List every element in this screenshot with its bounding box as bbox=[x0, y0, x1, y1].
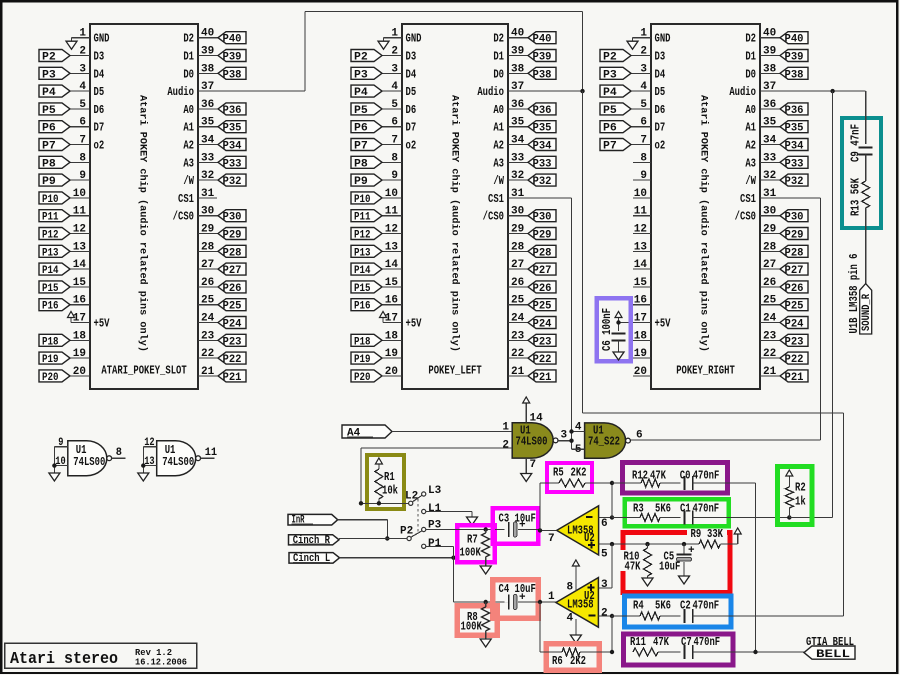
wire: audio-left long vertical bbox=[582, 91, 584, 413]
svg-text:P12: P12 bbox=[354, 230, 371, 242]
pin 29 tag P29 POKEY_LEFT bbox=[508, 224, 528, 236]
svg-text:38: 38 bbox=[511, 63, 525, 75]
svg-text:GND: GND bbox=[406, 32, 422, 46]
highlight box teal C9 R13 bbox=[842, 118, 881, 228]
svg-text:o2: o2 bbox=[94, 139, 105, 153]
svg-text:R7: R7 bbox=[467, 533, 478, 547]
pin 10 tag P10 ATARI_POKEY_SLOT bbox=[70, 188, 90, 200]
svg-text:21: 21 bbox=[511, 366, 525, 378]
resistor R6 2K2 bbox=[540, 648, 614, 668]
svg-text:R4: R4 bbox=[633, 599, 644, 613]
svg-text:7: 7 bbox=[640, 135, 647, 147]
highlight box salmon R8 bbox=[457, 606, 497, 636]
switch blade P2-P3 bbox=[411, 531, 422, 537]
pin 2 tag P2 POKEY_RIGHT bbox=[631, 46, 665, 64]
svg-text:P19: P19 bbox=[42, 354, 59, 366]
svg-text:C7: C7 bbox=[681, 635, 692, 649]
svg-text:16: 16 bbox=[73, 295, 86, 307]
resistor R10 47K bbox=[624, 544, 652, 578]
port tag P25 right POKEY_RIGHT bbox=[780, 299, 808, 313]
svg-text:P14: P14 bbox=[354, 265, 371, 277]
capacitor C2 470nF bbox=[680, 599, 843, 624]
pin 8 power U2A bbox=[572, 560, 579, 591]
port tag P2 left ATARI_POKEY_SLOT bbox=[39, 50, 70, 64]
switch contact L3 bbox=[422, 485, 442, 497]
pin 23 tag P23 POKEY_LEFT bbox=[508, 330, 528, 342]
svg-text:A0: A0 bbox=[493, 103, 504, 117]
svg-text:26: 26 bbox=[511, 277, 524, 289]
svg-text:33: 33 bbox=[763, 152, 777, 164]
svg-text:15: 15 bbox=[634, 277, 648, 289]
svg-text:+5V: +5V bbox=[406, 317, 423, 331]
svg-text:SOUND_R: SOUND_R bbox=[861, 294, 873, 331]
svg-text:47K: 47K bbox=[653, 635, 670, 649]
wires inputs pins 12 13 bbox=[141, 437, 157, 473]
svg-text:P28: P28 bbox=[533, 247, 552, 259]
ground gate inputs bbox=[49, 473, 60, 481]
svg-text:34: 34 bbox=[201, 135, 215, 147]
pin 11 stub POKEY_RIGHT bbox=[633, 206, 651, 218]
port tag P25 right POKEY_LEFT bbox=[528, 299, 556, 313]
svg-text:D0: D0 bbox=[493, 67, 504, 81]
highlight box green R2 bbox=[777, 467, 812, 525]
pin 20 tag P20 POKEY_LEFT bbox=[382, 366, 402, 378]
wire: audio chip2 stub bbox=[508, 90, 583, 92]
svg-text:1: 1 bbox=[391, 28, 398, 40]
port tag P6 left POKEY_LEFT bbox=[351, 121, 382, 135]
pin 14 tag P14 POKEY_LEFT bbox=[382, 259, 402, 271]
svg-text:P27: P27 bbox=[223, 265, 242, 277]
pin 16 tag P16 POKEY_LEFT bbox=[382, 295, 402, 307]
pin 23 tag P23 POKEY_RIGHT bbox=[760, 330, 780, 342]
svg-text:P9: P9 bbox=[42, 176, 56, 188]
svg-text:D2: D2 bbox=[183, 32, 194, 46]
port tag P5 left POKEY_RIGHT bbox=[600, 103, 631, 117]
svg-text:11: 11 bbox=[385, 206, 399, 218]
port tag P24 right POKEY_RIGHT bbox=[780, 317, 808, 331]
svg-text:P6: P6 bbox=[603, 123, 617, 135]
svg-text:32: 32 bbox=[201, 170, 214, 182]
svg-text:28: 28 bbox=[201, 241, 215, 253]
port tag P27 right POKEY_LEFT bbox=[528, 263, 556, 277]
pin 18 stub POKEY_RIGHT bbox=[633, 330, 651, 342]
port tag P11 left POKEY_LEFT bbox=[351, 210, 382, 224]
white gap for R10 text bbox=[621, 550, 642, 571]
svg-text:R3: R3 bbox=[633, 502, 644, 516]
svg-text:16: 16 bbox=[385, 295, 398, 307]
svg-text:A1: A1 bbox=[745, 121, 756, 135]
pin 37 Audio number POKEY_LEFT bbox=[511, 81, 524, 93]
ground symbol pin1 POKEY_RIGHT bbox=[627, 38, 638, 50]
port tag P5 left ATARI_POKEY_SLOT bbox=[39, 103, 70, 117]
wire: C9 top bbox=[865, 91, 867, 144]
svg-text:A3: A3 bbox=[745, 156, 756, 170]
svg-text:D7: D7 bbox=[655, 121, 666, 135]
svg-text:5: 5 bbox=[79, 99, 86, 111]
svg-text:10: 10 bbox=[634, 188, 647, 200]
pin 4 ground U2A bbox=[570, 619, 581, 643]
pin 28 tag P28 ATARI_POKEY_SLOT bbox=[198, 241, 218, 253]
svg-text:2: 2 bbox=[391, 46, 398, 58]
svg-text:ATARI_POKEY_SLOT: ATARI_POKEY_SLOT bbox=[101, 364, 186, 378]
pin 22 tag P22 ATARI_POKEY_SLOT bbox=[198, 348, 218, 360]
svg-text:36: 36 bbox=[201, 99, 214, 111]
port tag P34 right POKEY_LEFT bbox=[528, 139, 556, 153]
svg-text:D5: D5 bbox=[655, 85, 666, 99]
svg-text:L3: L3 bbox=[428, 485, 442, 497]
pin 16 tag P16 ATARI_POKEY_SLOT bbox=[70, 295, 90, 307]
svg-text:10k: 10k bbox=[382, 484, 398, 498]
svg-text:21: 21 bbox=[201, 366, 215, 378]
resistor R1 10k bbox=[375, 458, 398, 503]
svg-text:10uF: 10uF bbox=[515, 582, 536, 596]
pin 24 tag P24 POKEY_RIGHT bbox=[760, 313, 780, 325]
wire: bridge vertical left bbox=[304, 12, 306, 92]
svg-text:28: 28 bbox=[511, 241, 525, 253]
svg-text:+5V: +5V bbox=[655, 317, 672, 331]
port tag P12 left ATARI_POKEY_SLOT bbox=[39, 228, 70, 242]
port tag P15 left ATARI_POKEY_SLOT bbox=[39, 281, 70, 295]
net tag SOUND_R bbox=[860, 284, 872, 334]
resistor R11 47K bbox=[630, 635, 680, 656]
svg-text:74LS00: 74LS00 bbox=[516, 435, 548, 449]
port tag P15 left POKEY_LEFT bbox=[351, 281, 382, 295]
svg-text:P34: P34 bbox=[533, 141, 552, 153]
pin 9 tag P9 ATARI_POKEY_SLOT bbox=[70, 170, 90, 182]
pin 38 tag P38 POKEY_LEFT bbox=[508, 63, 528, 75]
svg-text:P40: P40 bbox=[533, 34, 552, 46]
svg-text:U2: U2 bbox=[584, 531, 595, 545]
svg-text:8: 8 bbox=[79, 152, 86, 164]
pin 11 tag P11 ATARI_POKEY_SLOT bbox=[70, 206, 90, 218]
switch blade L2-L3 bbox=[412, 495, 422, 502]
port tag P26 right POKEY_RIGHT bbox=[780, 281, 808, 295]
svg-text:P35: P35 bbox=[533, 123, 552, 135]
svg-text:470nF: 470nF bbox=[693, 599, 720, 613]
svg-text:P3: P3 bbox=[354, 69, 368, 81]
capacitor C0 470nF bbox=[680, 469, 756, 491]
pin 17 +5V POKEY_RIGHT bbox=[619, 313, 672, 331]
port tag P6 left POKEY_RIGHT bbox=[600, 121, 631, 135]
svg-text:17: 17 bbox=[385, 313, 398, 325]
pin 38 tag P38 POKEY_RIGHT bbox=[760, 63, 780, 75]
port tag P34 right ATARI_POKEY_SLOT bbox=[218, 139, 246, 153]
pin labels gate B bbox=[575, 422, 643, 457]
pin 5 tag P5 POKEY_RIGHT bbox=[631, 99, 665, 117]
highlight box olive R1 bbox=[367, 455, 404, 509]
pin 28 tag P28 POKEY_LEFT bbox=[508, 241, 528, 253]
port tag P35 right POKEY_RIGHT bbox=[780, 121, 808, 135]
port tag P7 left ATARI_POKEY_SLOT bbox=[39, 139, 70, 153]
svg-text:InR: InR bbox=[292, 515, 305, 527]
port tag P23 right POKEY_RIGHT bbox=[780, 334, 808, 348]
svg-text:A3: A3 bbox=[183, 156, 194, 170]
pin 6 tag P6 POKEY_LEFT bbox=[382, 117, 416, 135]
port tag P11 left ATARI_POKEY_SLOT bbox=[39, 210, 70, 224]
svg-text:17: 17 bbox=[634, 313, 647, 325]
port tag P34 right POKEY_RIGHT bbox=[780, 139, 808, 153]
wire InR bbox=[338, 520, 390, 541]
switch contact L2 bbox=[405, 491, 418, 506]
svg-text:7: 7 bbox=[548, 533, 555, 545]
highlight box magenta R5 bbox=[547, 463, 592, 492]
svg-text:19: 19 bbox=[634, 348, 647, 360]
svg-text:P32: P32 bbox=[785, 176, 804, 188]
svg-text:P24: P24 bbox=[533, 319, 552, 331]
svg-text:POKEY_LEFT: POKEY_LEFT bbox=[428, 364, 481, 378]
pin 21 tag P21 POKEY_LEFT bbox=[508, 366, 528, 378]
svg-text:5: 5 bbox=[575, 444, 582, 456]
svg-text:D1: D1 bbox=[493, 50, 504, 64]
port tag P40 right POKEY_RIGHT bbox=[780, 32, 808, 46]
pin 39 tag P39 POKEY_RIGHT bbox=[760, 46, 780, 58]
pin 26 tag P26 ATARI_POKEY_SLOT bbox=[198, 277, 218, 289]
svg-text:P36: P36 bbox=[533, 105, 552, 117]
chip inner labels POKEY_LEFT bbox=[428, 95, 481, 378]
port tag P21 right POKEY_RIGHT bbox=[780, 370, 808, 384]
pin 40 tag P40 ATARI_POKEY_SLOT bbox=[198, 28, 218, 40]
port tag P21 right ATARI_POKEY_SLOT bbox=[218, 370, 246, 384]
highlight box purple R12 C0 bbox=[623, 463, 728, 494]
svg-text:P28: P28 bbox=[223, 247, 242, 259]
op-amp U2 LM358 (B half) bbox=[557, 506, 599, 555]
svg-text:74LS00: 74LS00 bbox=[73, 455, 105, 469]
svg-text:31: 31 bbox=[201, 188, 215, 200]
svg-text:30: 30 bbox=[201, 206, 214, 218]
port tag P22 right ATARI_POKEY_SLOT bbox=[218, 352, 246, 366]
pin 30 tag P30 ATARI_POKEY_SLOT bbox=[198, 206, 218, 218]
svg-text:Atari POKEY chip (audio relate: Atari POKEY chip (audio related pins onl… bbox=[698, 95, 710, 352]
svg-text:2: 2 bbox=[601, 607, 608, 619]
nand gate U1 74LS00 unused 1 bbox=[68, 441, 112, 476]
port tag P4 left ATARI_POKEY_SLOT bbox=[39, 85, 70, 99]
port tag P2 left POKEY_LEFT bbox=[351, 50, 382, 64]
port tag P27 right POKEY_RIGHT bbox=[780, 263, 808, 277]
svg-text:23: 23 bbox=[201, 330, 215, 342]
wires gate A out to gate B in bbox=[558, 429, 585, 449]
svg-text:P16: P16 bbox=[42, 301, 59, 313]
port tag P13 left POKEY_LEFT bbox=[351, 245, 382, 259]
port tag P14 left ATARI_POKEY_SLOT bbox=[39, 263, 70, 277]
svg-text:/CS0: /CS0 bbox=[483, 210, 504, 224]
svg-text:P4: P4 bbox=[42, 87, 56, 99]
svg-text:P4: P4 bbox=[354, 87, 368, 99]
wire R12C0 down to bell node bbox=[755, 483, 757, 652]
node: audio right junction bbox=[830, 89, 834, 93]
svg-text:D6: D6 bbox=[406, 103, 417, 117]
svg-text:D6: D6 bbox=[94, 103, 105, 117]
port tag P18 left POKEY_LEFT bbox=[351, 334, 382, 348]
svg-text:D0: D0 bbox=[745, 67, 756, 81]
svg-text:L1: L1 bbox=[428, 503, 442, 515]
svg-text:39: 39 bbox=[763, 46, 776, 58]
port tag P28 right ATARI_POKEY_SLOT bbox=[218, 245, 246, 259]
output pin 11 stub bbox=[201, 447, 218, 459]
pin 36 tag P36 POKEY_LEFT bbox=[508, 99, 528, 111]
pin 34 tag P34 ATARI_POKEY_SLOT bbox=[198, 135, 218, 147]
svg-text:P30: P30 bbox=[785, 212, 804, 224]
port tag P33 right ATARI_POKEY_SLOT bbox=[218, 156, 246, 170]
pin 1 GND POKEY_RIGHT bbox=[633, 28, 671, 46]
svg-text:D1: D1 bbox=[183, 50, 194, 64]
svg-text:5K6: 5K6 bbox=[655, 599, 671, 613]
svg-text:19: 19 bbox=[385, 348, 398, 360]
pin 37 Audio number ATARI_POKEY_SLOT bbox=[201, 81, 214, 93]
svg-text:3: 3 bbox=[640, 63, 647, 75]
svg-text:Cinch L: Cinch L bbox=[293, 553, 331, 565]
svg-text:8: 8 bbox=[640, 152, 647, 164]
pin 10 tag P10 POKEY_LEFT bbox=[382, 188, 402, 200]
pin 3 tag P3 ATARI_POKEY_SLOT bbox=[70, 63, 104, 81]
svg-text:P11: P11 bbox=[42, 212, 59, 224]
svg-text:P26: P26 bbox=[533, 283, 552, 295]
wire down to R1 bottom bbox=[360, 448, 362, 503]
svg-text:GND: GND bbox=[655, 32, 671, 46]
svg-text:27: 27 bbox=[201, 259, 214, 271]
svg-text:A2: A2 bbox=[493, 139, 504, 153]
capacitor C3 10uF bbox=[499, 512, 541, 538]
svg-text:39: 39 bbox=[201, 46, 214, 58]
svg-text:36: 36 bbox=[763, 99, 776, 111]
pin 31 CS1 POKEY_LEFT bbox=[508, 188, 572, 200]
pin 12 tag P12 POKEY_LEFT bbox=[382, 224, 402, 236]
power +5V at C6 bbox=[618, 318, 620, 323]
pin 1 GND POKEY_LEFT bbox=[384, 28, 422, 46]
resistor R8 100K bbox=[461, 600, 490, 639]
pin labels U2B bbox=[548, 518, 608, 561]
svg-text:39: 39 bbox=[511, 46, 524, 58]
svg-text:P8: P8 bbox=[354, 158, 368, 170]
port tag P22 right POKEY_RIGHT bbox=[780, 352, 808, 366]
svg-text:15: 15 bbox=[73, 277, 87, 289]
pin 23 tag P23 ATARI_POKEY_SLOT bbox=[198, 330, 218, 342]
port tag P33 right POKEY_LEFT bbox=[528, 156, 556, 170]
port tag P2 left POKEY_RIGHT bbox=[600, 50, 631, 64]
svg-text:35: 35 bbox=[201, 117, 215, 129]
svg-text:3: 3 bbox=[79, 63, 86, 75]
pin 4 tag P4 POKEY_LEFT bbox=[382, 81, 416, 99]
POKEY chip POKEY_RIGHT (U) body bbox=[651, 24, 760, 389]
svg-text:6: 6 bbox=[391, 117, 398, 129]
port tag P39 right ATARI_POKEY_SLOT bbox=[218, 50, 246, 64]
svg-text:9: 9 bbox=[640, 170, 647, 182]
svg-text:38: 38 bbox=[201, 63, 215, 75]
net tag A4 bbox=[342, 425, 392, 438]
svg-text:7: 7 bbox=[391, 135, 398, 147]
net tag Cinch R bbox=[289, 535, 340, 545]
svg-text:P24: P24 bbox=[785, 319, 804, 331]
pin 31 CS1 POKEY_RIGHT bbox=[760, 188, 820, 200]
svg-text:Atari stereo: Atari stereo bbox=[10, 650, 118, 669]
pin 9 tag P9 POKEY_LEFT bbox=[382, 170, 402, 182]
svg-text:29: 29 bbox=[511, 224, 524, 236]
svg-text:P19: P19 bbox=[354, 354, 371, 366]
pin 19 tag P19 ATARI_POKEY_SLOT bbox=[70, 348, 90, 360]
wire: bridge top horizontal bbox=[305, 11, 583, 13]
svg-text:P30: P30 bbox=[533, 212, 552, 224]
port tag P3 left POKEY_LEFT bbox=[351, 67, 382, 81]
resistor R7 100K bbox=[460, 527, 490, 566]
svg-text:+5V: +5V bbox=[94, 317, 111, 331]
svg-text:P14: P14 bbox=[42, 265, 59, 277]
svg-text:40: 40 bbox=[511, 28, 524, 40]
svg-text:18: 18 bbox=[73, 330, 87, 342]
svg-text:9: 9 bbox=[79, 170, 86, 182]
svg-text:470nF: 470nF bbox=[693, 502, 720, 516]
pin 34 tag P34 POKEY_RIGHT bbox=[760, 135, 780, 147]
switch contact L1 bbox=[422, 503, 442, 515]
svg-text:38: 38 bbox=[763, 63, 777, 75]
svg-text:C0: C0 bbox=[680, 469, 691, 483]
pin 11 tag P11 POKEY_LEFT bbox=[382, 206, 402, 218]
svg-text:6: 6 bbox=[640, 117, 647, 129]
op-amp U2 LM358 (A half) bbox=[556, 578, 599, 628]
svg-text:D5: D5 bbox=[94, 85, 105, 99]
svg-text:P26: P26 bbox=[785, 283, 804, 295]
pin 32 tag P32 POKEY_LEFT bbox=[508, 170, 528, 182]
svg-text:Audio: Audio bbox=[167, 85, 194, 99]
svg-text:D4: D4 bbox=[406, 67, 417, 81]
pin 30 tag P30 POKEY_LEFT bbox=[508, 206, 528, 218]
highlight box magenta R7 bbox=[457, 525, 494, 562]
svg-text:5: 5 bbox=[640, 99, 647, 111]
svg-text:18: 18 bbox=[634, 330, 648, 342]
svg-text:P39: P39 bbox=[223, 52, 242, 64]
POKEY chip POKEY_LEFT (U) body bbox=[402, 24, 508, 389]
wire pin3 bbox=[598, 587, 611, 589]
port tag P36 right ATARI_POKEY_SLOT bbox=[218, 103, 246, 117]
svg-text:R6: R6 bbox=[552, 654, 563, 668]
port tag P22 right POKEY_LEFT bbox=[528, 352, 556, 366]
svg-text:P23: P23 bbox=[533, 336, 552, 348]
wire bias row bbox=[610, 542, 699, 546]
svg-text:A0: A0 bbox=[745, 103, 756, 117]
svg-text:22: 22 bbox=[763, 348, 776, 360]
port tag P8 left POKEY_LEFT bbox=[351, 156, 382, 170]
svg-text:9: 9 bbox=[58, 437, 63, 449]
svg-text:20: 20 bbox=[634, 366, 647, 378]
svg-text:6: 6 bbox=[636, 430, 643, 442]
svg-text:D6: D6 bbox=[655, 103, 666, 117]
wire pin5 bias vertical to pin3 bbox=[598, 544, 611, 588]
svg-text:D4: D4 bbox=[94, 67, 105, 81]
svg-text:Audio: Audio bbox=[729, 85, 756, 99]
wire: CS1 chip3 vertical bbox=[819, 198, 821, 440]
svg-text:D3: D3 bbox=[406, 50, 417, 64]
port tag P32 right ATARI_POKEY_SLOT bbox=[218, 174, 246, 188]
pin labels U2A bbox=[548, 579, 608, 624]
port tag P23 right ATARI_POKEY_SLOT bbox=[218, 334, 246, 348]
svg-text:16: 16 bbox=[634, 295, 647, 307]
pin 5 tag P5 POKEY_LEFT bbox=[382, 99, 416, 117]
svg-text:35: 35 bbox=[763, 117, 777, 129]
svg-text:P16: P16 bbox=[354, 301, 371, 313]
port tag P38 right POKEY_LEFT bbox=[528, 67, 556, 81]
pin 37 Audio number POKEY_RIGHT bbox=[763, 81, 776, 93]
svg-text:22: 22 bbox=[201, 348, 214, 360]
wire pin1 node bbox=[538, 600, 556, 652]
svg-text:U1B LM358 pin 6: U1B LM358 pin 6 bbox=[847, 254, 861, 334]
port tag P38 right ATARI_POKEY_SLOT bbox=[218, 67, 246, 81]
nand gate U1 74_S22 (inverter) bbox=[585, 423, 631, 458]
svg-text:1: 1 bbox=[548, 591, 555, 603]
wire pin6 bbox=[599, 483, 615, 520]
pin 30 tag P30 POKEY_RIGHT bbox=[760, 206, 780, 218]
nand gate U1 74LS00 unused 2 bbox=[157, 441, 201, 476]
svg-text:2: 2 bbox=[79, 46, 86, 58]
pin 22 tag P22 POKEY_LEFT bbox=[508, 348, 528, 360]
svg-text:P30: P30 bbox=[223, 212, 242, 224]
